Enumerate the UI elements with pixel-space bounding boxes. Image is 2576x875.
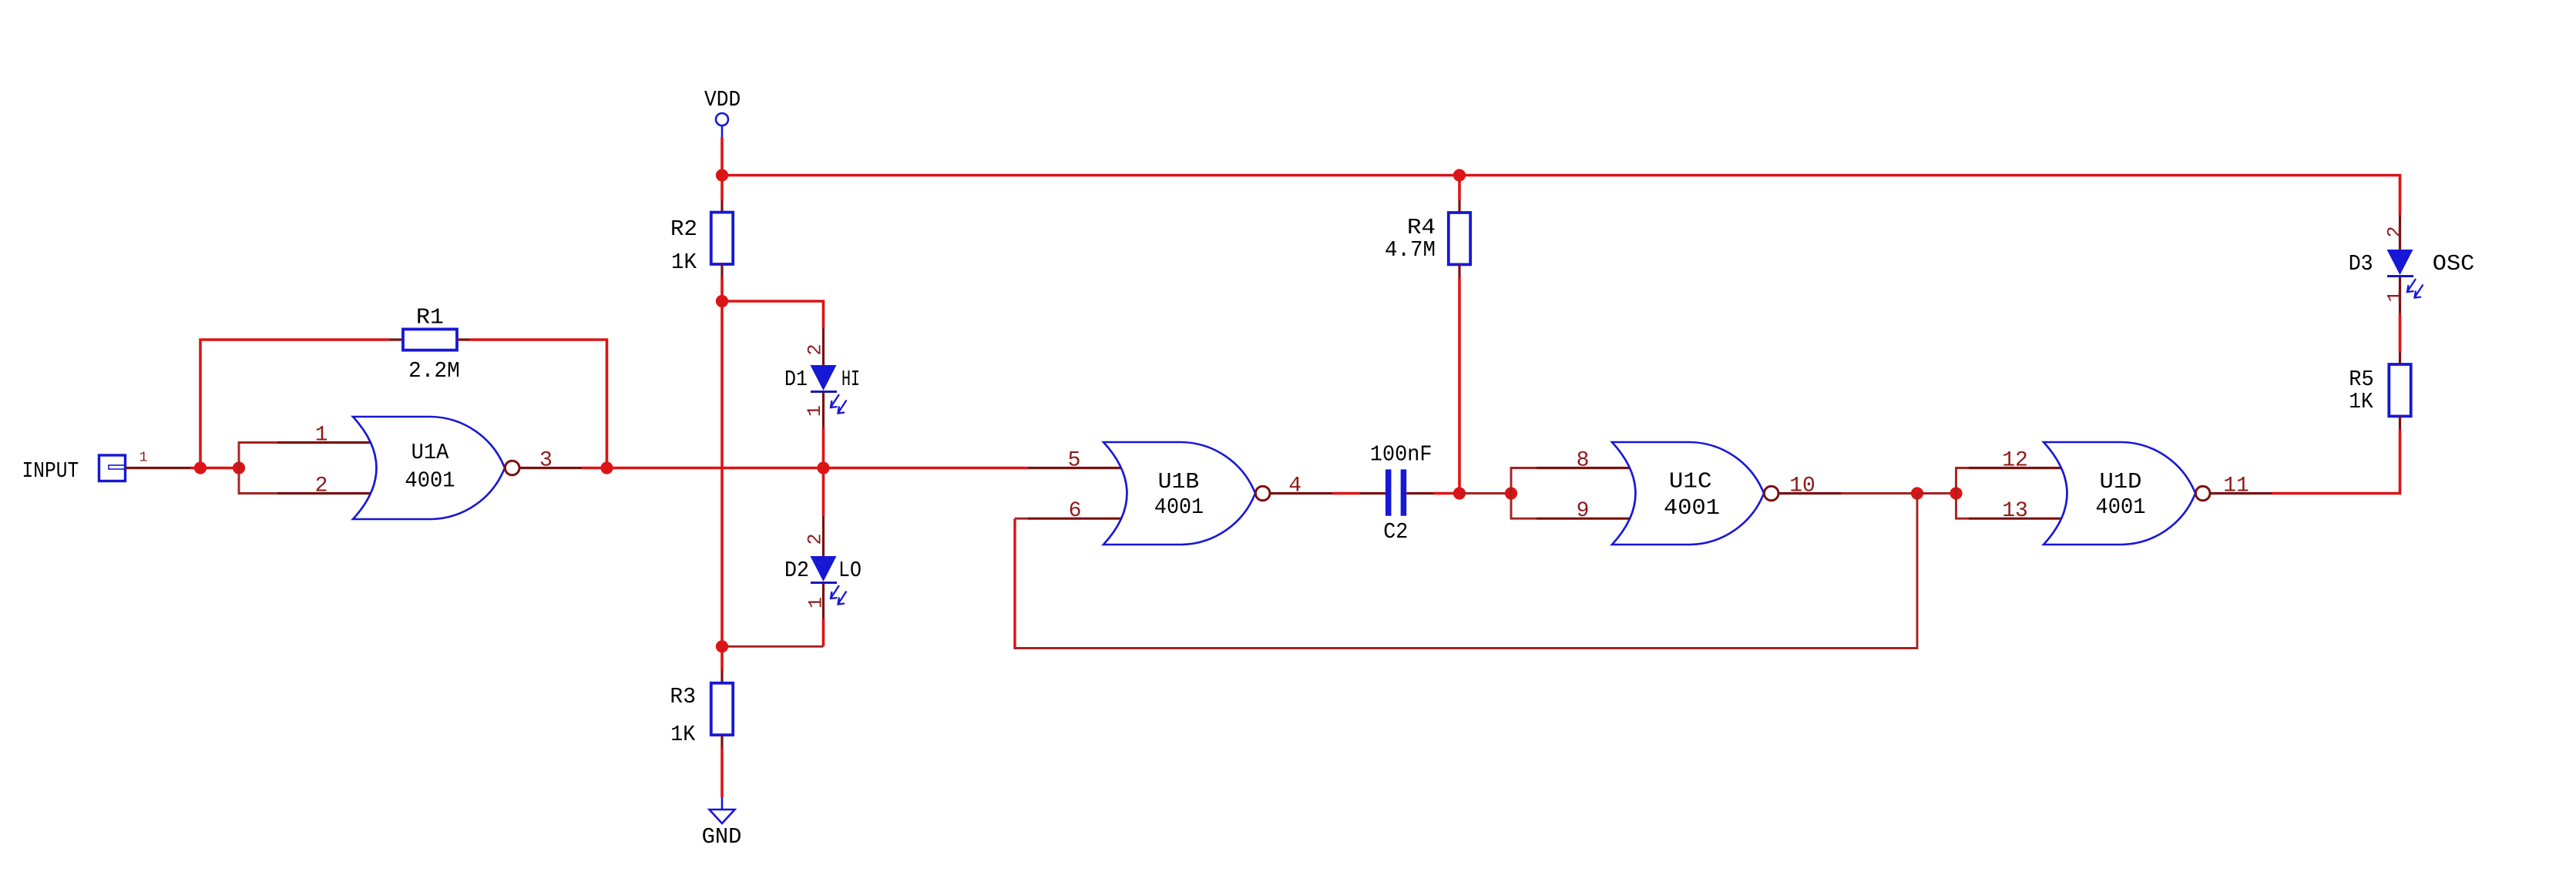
pin (R3 pin 1) — [720, 671, 723, 684]
pin 10 (U1C) — [1778, 492, 1841, 494]
wire — [720, 277, 724, 301]
wire — [200, 340, 390, 468]
output bubble (U1D pin 11) — [2195, 486, 2210, 501]
junction (U1C out / feedback) — [1911, 487, 1923, 499]
pin (R5 pin 1) — [2399, 352, 2401, 365]
output bubble (U1C pin 10) — [1764, 486, 1778, 501]
LED D2 — [811, 556, 847, 605]
svg-text:9: 9 — [1577, 499, 1590, 523]
junction (VDD rail / R4) — [1453, 169, 1466, 181]
pin 1 (U1A) — [277, 441, 371, 444]
junction (U1C input bracket) — [1505, 487, 1517, 499]
NOR gate U1A body — [353, 417, 505, 519]
pin (D3 pin 1) — [2399, 277, 2401, 313]
svg-text:2: 2 — [2384, 226, 2406, 237]
wire — [722, 301, 824, 328]
svg-text:4001: 4001 — [1154, 494, 1204, 520]
output bubble (U1B pin 4) — [1255, 486, 1270, 501]
junction (U1D input bracket) — [1950, 487, 1962, 499]
pin 13 (U1D) — [1969, 518, 2062, 520]
pin (D1 pin 2) — [822, 328, 825, 365]
pin 2 (U1A) — [277, 492, 371, 494]
wire — [200, 467, 239, 470]
wire — [470, 340, 607, 468]
svg-text:1: 1 — [2384, 290, 2406, 302]
pin (R2 pin 1) — [720, 201, 723, 213]
wire — [1332, 492, 1360, 495]
LED D3 — [2387, 250, 2423, 298]
wire (feedback loop bottom and right) — [1014, 494, 1918, 649]
wire — [1458, 176, 1461, 201]
wire (node A to node B vertical) — [720, 301, 724, 646]
wire (U1C input bracket) — [1511, 468, 1537, 519]
output bubble (U1A pin 3) — [505, 461, 519, 475]
junction (U1A input bracket) — [233, 461, 245, 474]
svg-text:D3: D3 — [2349, 251, 2373, 277]
pin 6 (U1B) — [1028, 518, 1122, 520]
svg-text:13: 13 — [2002, 499, 2028, 523]
svg-text:U1A: U1A — [411, 440, 449, 465]
wire — [1433, 492, 1459, 495]
wire (feedback loop at U1B pin 6) — [1015, 518, 1028, 520]
pin (C2 pin 1) — [1360, 492, 1385, 494]
wire — [190, 467, 200, 470]
wire (feedback loop left vertical) — [1013, 518, 1016, 648]
pin (connector pin 1) — [126, 467, 191, 469]
svg-text:R3: R3 — [670, 684, 696, 709]
svg-text:1: 1 — [139, 451, 148, 466]
svg-text:U1C: U1C — [1669, 469, 1712, 494]
svg-text:1K: 1K — [2349, 389, 2373, 414]
connector INPUT — [99, 455, 126, 481]
pin 8 (U1C) — [1537, 467, 1631, 469]
svg-text:D1: D1 — [784, 367, 808, 392]
wire (VDD top rail) — [722, 176, 2400, 216]
svg-text:R1: R1 — [416, 304, 444, 330]
svg-text:1: 1 — [805, 597, 828, 608]
svg-text:4001: 4001 — [405, 468, 455, 494]
svg-text:4001: 4001 — [1664, 495, 1720, 521]
capacitor C2 — [1385, 469, 1406, 515]
pin (R1 pin 1) — [390, 338, 403, 340]
pin 4 (U1B) — [1270, 492, 1332, 494]
svg-text:INPUT: INPUT — [22, 458, 79, 484]
svg-text:VDD: VDD — [704, 87, 741, 112]
wire — [720, 176, 724, 201]
NOR gate U1D body — [2044, 442, 2195, 545]
resistor R3 — [711, 683, 733, 735]
pin (R3 pin 2) — [720, 735, 723, 748]
wire — [822, 619, 825, 647]
svg-text:12: 12 — [2002, 449, 2028, 473]
svg-text:LO: LO — [838, 558, 861, 583]
pin (R1 pin 2) — [457, 338, 470, 340]
wire — [720, 646, 724, 670]
svg-text:1K: 1K — [671, 250, 697, 275]
resistor R2 — [711, 213, 733, 264]
pin (D1 pin 1) — [822, 393, 825, 428]
power symbol VDD — [716, 113, 728, 137]
svg-text:6: 6 — [1069, 499, 1082, 523]
svg-text:OSC: OSC — [2433, 251, 2475, 277]
pin (D2 pin 2) — [822, 516, 825, 556]
junction node B — [716, 640, 728, 652]
pin (C2 pin 2) — [1406, 492, 1433, 494]
resistor R5 — [2389, 364, 2410, 416]
wire — [2272, 430, 2400, 494]
pin 11 (U1D) — [2210, 492, 2272, 494]
pin 9 (U1C) — [1537, 518, 1631, 520]
svg-text:U1D: U1D — [2100, 469, 2142, 494]
pin (R2 pin 2) — [720, 264, 723, 277]
svg-text:5: 5 — [1068, 449, 1081, 473]
pin (D2 pin 1) — [822, 584, 825, 619]
junction (D1/D2 mid on main wire) — [817, 461, 829, 474]
pin 12 (U1D) — [1969, 467, 2062, 469]
svg-text:R2: R2 — [670, 216, 697, 242]
svg-text:10: 10 — [1789, 474, 1815, 498]
junction (input / R1 tap) — [194, 461, 207, 474]
pin (R5 pin 2) — [2399, 416, 2401, 429]
NOR gate U1C body — [1612, 442, 1764, 545]
junction (VDD rail / R2) — [716, 169, 728, 181]
svg-text:HI: HI — [841, 367, 860, 392]
resistor R1 — [403, 329, 457, 350]
junction (C2 / R4) — [1453, 487, 1466, 499]
NOR gate U1B body — [1103, 442, 1255, 545]
wire (U1C output) — [1841, 492, 1917, 494]
svg-text:4.7M: 4.7M — [1385, 237, 1436, 263]
svg-text:D2: D2 — [784, 558, 809, 583]
svg-text:2: 2 — [804, 533, 827, 545]
svg-text:C2: C2 — [1383, 519, 1408, 545]
svg-text:11: 11 — [2223, 474, 2249, 498]
svg-text:1K: 1K — [670, 722, 696, 747]
svg-text:2.2M: 2.2M — [408, 358, 460, 384]
wire (D2 to node B) — [722, 645, 824, 648]
wire — [2399, 313, 2402, 352]
wire (R4 junction to U1C bracket) — [1459, 492, 1511, 494]
wire — [822, 427, 825, 468]
ground — [710, 797, 735, 823]
wire (U1D input bracket) — [1956, 468, 1969, 519]
svg-text:2: 2 — [315, 474, 328, 498]
svg-text:U1B: U1B — [1158, 469, 1200, 494]
pin 3 (U1A) — [519, 467, 582, 469]
wire — [822, 468, 825, 517]
junction (R1 / U1A output) — [600, 461, 613, 474]
svg-text:100nF: 100nF — [1370, 442, 1432, 468]
svg-text:4001: 4001 — [2096, 494, 2146, 520]
svg-text:8: 8 — [1577, 449, 1590, 473]
svg-text:GND: GND — [702, 824, 742, 850]
junction node A — [716, 295, 728, 307]
pin 5 (U1B) — [1028, 467, 1122, 469]
wire (U1A input bracket) — [239, 443, 277, 494]
pin (R4 pin 2) — [1458, 265, 1460, 278]
svg-text:2: 2 — [804, 344, 827, 355]
wire — [720, 137, 724, 176]
wire — [720, 748, 724, 797]
svg-text:4: 4 — [1288, 474, 1301, 498]
pin (R4 pin 1) — [1458, 200, 1460, 213]
svg-text:1: 1 — [315, 424, 328, 448]
svg-text:3: 3 — [539, 449, 552, 473]
resistor R4 — [1449, 213, 1470, 264]
wire — [1917, 492, 1956, 494]
wire — [1458, 277, 1461, 494]
pin (D3 pin 2) — [2399, 215, 2401, 250]
wire — [582, 467, 1028, 470]
LED D1 — [811, 365, 847, 414]
svg-text:1: 1 — [804, 405, 826, 417]
